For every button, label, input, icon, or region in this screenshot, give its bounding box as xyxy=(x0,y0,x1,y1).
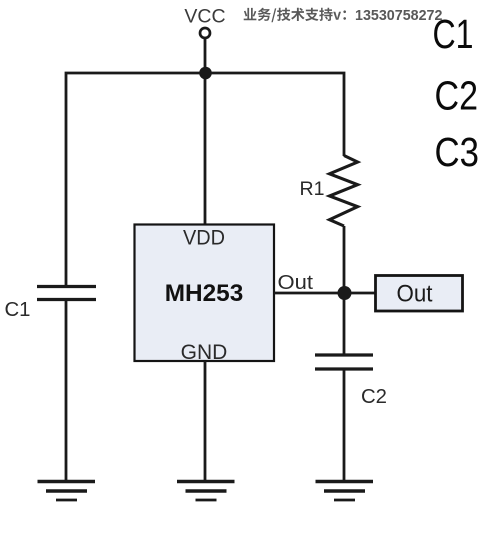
wire node to VDD pin xyxy=(204,73,207,225)
IC U1 MH253 xyxy=(135,225,275,362)
wire VCC to node xyxy=(204,38,207,73)
ground left xyxy=(38,482,96,501)
svg-text:R1: R1 xyxy=(300,178,325,200)
resistor R1 xyxy=(330,156,358,227)
svg-text:MH253: MH253 xyxy=(165,280,244,307)
svg-text:Out: Out xyxy=(397,281,433,308)
svg-text:GND: GND xyxy=(181,341,228,364)
capacitor C2 xyxy=(315,355,373,369)
wire C1 to ground xyxy=(65,300,68,482)
wire GND pin to ground xyxy=(204,361,207,481)
svg-text:C2: C2 xyxy=(361,386,387,408)
wire R1 to out node xyxy=(343,226,346,293)
ground right xyxy=(316,482,374,501)
capacitor C1 xyxy=(37,287,96,300)
svg-text:13530758272: 13530758272 xyxy=(355,8,443,24)
wire top rail xyxy=(66,73,344,287)
svg-text:C1: C1 xyxy=(5,299,31,321)
ground middle xyxy=(177,482,235,501)
svg-text:VDD: VDD xyxy=(183,226,225,249)
svg-text:C3: C3 xyxy=(435,129,480,175)
node VCC junction xyxy=(199,67,212,80)
svg-text:Out: Out xyxy=(278,272,314,294)
svg-text:VCC: VCC xyxy=(184,6,225,28)
port Out box xyxy=(376,276,463,312)
node Out junction xyxy=(338,286,352,300)
support contact text xyxy=(244,8,443,24)
terminal VCC xyxy=(200,28,210,38)
wire node to C2 xyxy=(343,293,346,355)
svg-text:C2: C2 xyxy=(435,72,479,118)
wire Out pin xyxy=(274,292,375,295)
wire C2 to ground xyxy=(343,369,346,481)
svg-text:C1: C1 xyxy=(433,11,474,57)
